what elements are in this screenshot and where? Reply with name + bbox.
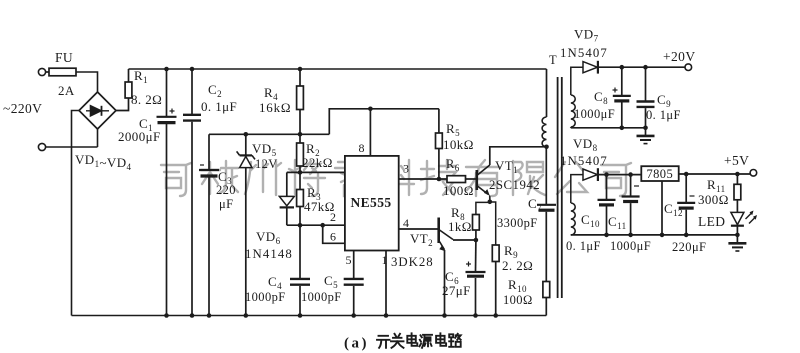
wire +5V output — [679, 173, 750, 175]
wire bridge DC- to ground rail — [72, 111, 80, 316]
svg-text:3DK28: 3DK28 — [391, 255, 434, 269]
transformer secondary winding 2 — [571, 175, 583, 203]
ground symbol +20V section — [645, 128, 647, 136]
diode VD8 1N5407 — [583, 169, 597, 180]
svg-text:27μF: 27μF — [442, 283, 471, 298]
wire 12V node — [209, 133, 300, 135]
wire bridge AC leg — [97, 129, 99, 147]
diode VD7 1N5407 — [583, 62, 597, 73]
bridge rectifier VD1~VD4 — [79, 92, 116, 129]
ground symbol +5V section — [736, 235, 738, 243]
node VT2 collector — [474, 238, 479, 243]
svg-text:10kΩ: 10kΩ — [443, 137, 474, 152]
svg-text:1: 1 — [382, 253, 388, 267]
svg-text:16kΩ: 16kΩ — [259, 100, 291, 115]
capacitor C2 0.1uF — [191, 69, 193, 114]
wire pin4 to VT2 base — [399, 228, 438, 230]
wire R1 to rail — [128, 69, 130, 82]
wire secondary1 return — [571, 127, 646, 129]
svg-text:(a): (a) — [344, 336, 369, 352]
wire +5V section ground rail — [571, 234, 738, 236]
wire bottom ground rail — [72, 315, 547, 317]
resistor R4 16k — [299, 69, 301, 86]
node VT1 emitter — [488, 200, 493, 205]
node 12V junction — [298, 132, 303, 137]
wire 12V to elbow — [300, 133, 329, 135]
svg-text:100Ω: 100Ω — [443, 183, 474, 198]
resistor R5 10k — [438, 109, 440, 133]
terminal AC neutral — [38, 143, 45, 150]
wire fuse to bridge — [76, 72, 98, 92]
resistor R2 22k — [299, 134, 301, 143]
bridge inner diode lead — [86, 110, 109, 112]
watermark text (hollow gray) — [161, 160, 631, 196]
svg-text:8. 2Ω: 8. 2Ω — [131, 92, 162, 107]
svg-text:1000pF: 1000pF — [301, 290, 342, 304]
svg-text:2: 2 — [330, 210, 336, 224]
wire 12V top run — [329, 109, 439, 135]
capacitor C1 2000uF — [166, 69, 168, 116]
svg-text:100Ω: 100Ω — [503, 293, 533, 307]
wire top DC+ rail — [129, 68, 547, 70]
wire VT1 collector to primary — [490, 147, 547, 165]
transformer secondary winding 1 — [571, 67, 583, 95]
svg-text:220: 220 — [216, 183, 236, 197]
wire 7805 ground pin — [661, 181, 663, 235]
terminal +5V — [750, 170, 757, 177]
svg-text:12V: 12V — [255, 157, 278, 171]
capacitor C5 1000pF — [353, 251, 355, 279]
svg-text:4: 4 — [403, 216, 409, 230]
LED indicator — [731, 212, 744, 224]
transformer T primary winding — [546, 69, 548, 117]
capacitor C9 0.1uF — [645, 67, 647, 101]
svg-text:3300pF: 3300pF — [497, 216, 538, 230]
svg-text:1N5407: 1N5407 — [560, 46, 608, 60]
svg-text:3: 3 — [403, 162, 409, 176]
svg-text:0. 1μF: 0. 1μF — [201, 99, 237, 114]
wire pin1 to ground — [385, 251, 387, 316]
svg-text:+20V: +20V — [663, 49, 695, 64]
VT1 emitter — [477, 186, 488, 195]
svg-text:2A: 2A — [58, 83, 75, 98]
node pin7 — [298, 170, 303, 175]
capacitor C11 1000uF — [630, 175, 632, 196]
svg-text:2000μF: 2000μF — [118, 129, 161, 144]
transistor Q1 VT1 2SC1942 — [475, 170, 478, 190]
zener diode VD5 12V — [245, 134, 247, 155]
diode VD6 1N4148 — [286, 172, 288, 196]
svg-text:1N4148: 1N4148 — [245, 247, 293, 261]
capacitor C10 0.1uF — [606, 175, 608, 200]
bridge inner diode — [91, 106, 102, 116]
svg-text:~220V: ~220V — [3, 101, 42, 116]
svg-text:2. 2Ω: 2. 2Ω — [502, 258, 533, 273]
svg-text:220μF: 220μF — [672, 240, 706, 254]
resistor R1 8.2ohm — [125, 82, 132, 98]
svg-text:T: T — [549, 53, 557, 67]
svg-text:2SC1942: 2SC1942 — [489, 178, 540, 192]
svg-text:8: 8 — [359, 141, 365, 155]
svg-text:0. 1μF: 0. 1μF — [566, 239, 601, 253]
resistor R3 47k — [299, 172, 301, 189]
svg-text:1N5407: 1N5407 — [560, 154, 608, 168]
svg-text:5: 5 — [346, 253, 352, 267]
resistor R6 100ohm — [447, 176, 466, 183]
wire +20V — [598, 66, 685, 68]
svg-text:NE555: NE555 — [351, 195, 392, 210]
transistor Q2 VT2 3DK28 — [437, 218, 440, 244]
wire pin3 output — [399, 178, 447, 180]
VT2 emitter — [440, 242, 445, 250]
wire trigger node to pin2 — [287, 224, 345, 226]
svg-text:22kΩ: 22kΩ — [302, 155, 333, 170]
node primary-collector — [544, 145, 549, 150]
resistor R10 100ohm — [543, 282, 550, 298]
wire pin7 node — [287, 171, 345, 173]
svg-text:FU: FU — [55, 50, 73, 65]
node trigger — [298, 223, 303, 228]
resistor R9 2.2ohm — [490, 202, 496, 245]
resistor R8 1k — [476, 202, 490, 214]
svg-text:1kΩ: 1kΩ — [448, 219, 472, 234]
wire AC neutral — [46, 146, 98, 148]
op-amp/timer U1 NE555 — [345, 156, 399, 251]
fuse FU 2A — [49, 68, 76, 76]
resistor R11 300ohm — [736, 174, 738, 184]
wire — [46, 71, 49, 73]
regulator 7805 — [641, 166, 678, 181]
capacitor C12 220uF — [685, 174, 687, 202]
svg-text:1000μF: 1000μF — [574, 107, 615, 121]
svg-text:0. 1μF: 0. 1μF — [646, 108, 681, 122]
capacitor C3 220uF — [208, 134, 210, 169]
capacitor C4 1000pF — [299, 225, 301, 278]
svg-text:300Ω: 300Ω — [698, 192, 729, 207]
wire bridge DC+ to R1 — [116, 98, 129, 111]
wire pin8 riser — [369, 109, 371, 156]
svg-text:1000pF: 1000pF — [245, 290, 286, 304]
capacitor C8 1000uF — [621, 67, 623, 95]
capacitor C6 27uF — [475, 240, 477, 272]
svg-text:7805: 7805 — [647, 167, 674, 181]
terminal +20V — [685, 64, 692, 71]
svg-text:1000μF: 1000μF — [610, 239, 651, 253]
svg-text:+5V: +5V — [724, 153, 749, 168]
terminal AC live — [38, 68, 45, 75]
svg-text:μF: μF — [219, 197, 233, 211]
svg-text:6: 6 — [330, 230, 336, 244]
transformer core — [557, 77, 559, 298]
wire pin6 jumper — [323, 225, 345, 243]
svg-text:LED: LED — [698, 214, 725, 229]
